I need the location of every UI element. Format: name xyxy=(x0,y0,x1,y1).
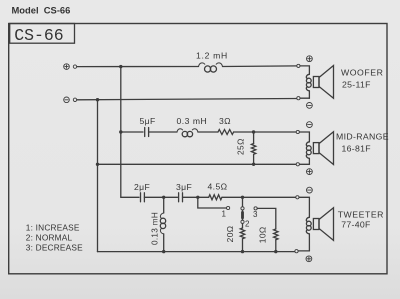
junction 0.13mH to bottom rail xyxy=(162,250,165,253)
woofer driver symbol xyxy=(313,66,333,99)
junction tweeter row to attenuator xyxy=(241,196,244,199)
terminal tap 1 xyxy=(227,206,230,209)
midrange terminal top xyxy=(296,130,299,133)
border frame xyxy=(9,24,387,274)
midrange voice coil xyxy=(306,142,311,165)
terminal tap 2 upper xyxy=(241,207,244,210)
svg-text:3Ω: 3Ω xyxy=(219,116,231,126)
inductor L2 0.3mH xyxy=(177,129,198,137)
tweeter plus mark xyxy=(306,256,312,262)
svg-text:20Ω: 20Ω xyxy=(225,226,235,243)
midrange minus mark xyxy=(307,122,313,128)
svg-text:3: 3 xyxy=(253,210,258,219)
svg-text:WOOFER: WOOFER xyxy=(341,67,383,77)
svg-text:4.5Ω: 4.5Ω xyxy=(208,182,228,192)
inductor L3 0.13mH vertical xyxy=(160,197,165,251)
woofer voice coil xyxy=(306,74,311,98)
svg-text:1: INCREASE: 1: INCREASE xyxy=(26,223,80,233)
resistor R5 10 ohm vertical xyxy=(274,229,278,252)
jumper link position 2 xyxy=(241,210,243,221)
wire tweeter top xyxy=(299,197,309,217)
wire mid row segment 4 xyxy=(234,131,298,133)
title box CS-66 xyxy=(10,24,75,44)
svg-text:3: DECREASE: 3: DECREASE xyxy=(26,243,83,253)
wire plus rail right xyxy=(223,65,299,68)
capacitor C2 2uF xyxy=(141,193,145,202)
woofer plus mark xyxy=(307,56,313,62)
terminal tap 3 xyxy=(254,207,257,210)
resistor R2 25 ohm vertical xyxy=(251,132,255,164)
wire plus rail left xyxy=(77,66,199,68)
svg-text:2: NORMAL: 2: NORMAL xyxy=(26,233,73,243)
svg-text:77-40F: 77-40F xyxy=(341,220,370,230)
wire woofer bottom xyxy=(300,97,309,99)
capacitor C3 3uF xyxy=(179,193,183,202)
wire midrange top xyxy=(299,132,309,142)
junction 10 ohm to bottom rail xyxy=(274,250,277,253)
svg-text:10Ω: 10Ω xyxy=(257,226,267,243)
junction node A on plus rail xyxy=(119,65,122,68)
wire tweeter row segment 2 xyxy=(144,196,177,198)
junction left bus mid return xyxy=(96,163,99,166)
svg-text:TWEETER: TWEETER xyxy=(338,210,384,220)
svg-text:MID-RANGE: MID-RANGE xyxy=(336,131,389,141)
wire mid row segment 2 xyxy=(149,131,177,133)
wire midrange bottom xyxy=(299,163,309,165)
tweeter driver symbol xyxy=(313,208,333,241)
wire left vertical bus xyxy=(97,100,99,252)
woofer terminal top xyxy=(297,64,300,67)
svg-text:1: 1 xyxy=(222,210,227,219)
svg-text:3μF: 3μF xyxy=(176,182,192,192)
junction 25 ohm to mid return rail xyxy=(252,163,255,166)
woofer terminal bottom xyxy=(297,97,300,100)
resistor R3 4.5 ohm xyxy=(209,195,222,200)
junction tweeter row to 0.13mH xyxy=(162,196,165,199)
wire bottom rail xyxy=(98,251,296,253)
wire mid row segment 1 xyxy=(121,131,143,133)
midrange terminal bottom xyxy=(296,163,299,166)
svg-text:0.3 mH: 0.3 mH xyxy=(177,116,208,126)
wire mid row segment 3 xyxy=(198,131,218,133)
woofer minus mark xyxy=(307,103,313,109)
inductor L1 1.2mH xyxy=(199,63,223,72)
terminal tap 2 lower xyxy=(241,220,244,223)
wire tweeter row segment 3 xyxy=(183,196,209,198)
junction on minus rail xyxy=(96,98,99,101)
junction tweeter row to tap 1 xyxy=(196,196,199,199)
midrange plus mark xyxy=(307,169,313,175)
wire tweeter row segment 4 xyxy=(222,196,297,198)
wire down to tap 2 upper terminal xyxy=(242,197,244,207)
terminal minus input xyxy=(64,97,77,103)
svg-text:16-81F: 16-81F xyxy=(342,144,371,154)
junction 20 ohm to bottom rail xyxy=(241,250,244,253)
wire tweeter row segment 1 xyxy=(121,196,139,198)
tweeter terminal bottom xyxy=(295,250,298,253)
resistor R1 3 ohm xyxy=(218,130,234,135)
wire tweeter bottom xyxy=(298,250,309,252)
junction mid row at feed xyxy=(119,130,122,133)
wire vertical feed from plus rail to tweeter row xyxy=(120,67,122,198)
svg-text:CS-66: CS-66 xyxy=(14,26,64,45)
wire tap 3 to 10 ohm xyxy=(257,208,276,229)
svg-text:25Ω: 25Ω xyxy=(235,138,245,155)
capacitor C1 5uF xyxy=(145,128,149,137)
wire to tap terminal 1 xyxy=(198,197,227,208)
svg-text:25-11F: 25-11F xyxy=(342,80,371,90)
tweeter terminal top xyxy=(296,196,299,199)
tweeter voice coil xyxy=(306,217,311,251)
svg-text:2: 2 xyxy=(245,219,250,228)
svg-text:Model CS-66: Model CS-66 xyxy=(12,5,71,16)
tweeter minus mark xyxy=(307,187,313,193)
junction mid row to 25 ohm xyxy=(252,130,255,133)
resistor R4 20 ohm vertical xyxy=(240,224,244,252)
svg-text:2μF: 2μF xyxy=(134,182,150,192)
wire woofer top xyxy=(300,66,309,74)
svg-text:1.2 mH: 1.2 mH xyxy=(196,51,228,61)
wire mid return rail xyxy=(98,163,298,165)
wire minus rail xyxy=(77,99,298,100)
svg-text:0.13 mH: 0.13 mH xyxy=(150,212,159,245)
midrange driver symbol xyxy=(313,132,333,165)
svg-text:5μF: 5μF xyxy=(140,116,156,126)
terminal plus input xyxy=(64,64,77,70)
